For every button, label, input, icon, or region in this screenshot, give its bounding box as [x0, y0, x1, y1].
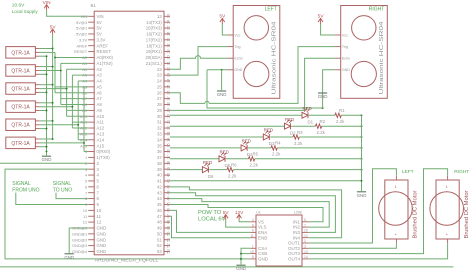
resistor R5	[249, 157, 255, 161]
svg-text:Vcc: Vcc	[234, 33, 240, 37]
wire OUT1 to left motor +	[309, 169, 397, 243]
svg-text:2.2k: 2.2k	[250, 163, 259, 168]
svg-text:RESET: RESET	[97, 49, 112, 54]
svg-text:22: 22	[166, 67, 170, 71]
svg-text:A10: A10	[80, 114, 88, 119]
svg-text:A9: A9	[97, 108, 103, 113]
svg-text:6: 6	[97, 184, 100, 189]
ultrasonic HC-SR04 RIGHT outline	[341, 6, 388, 99]
wire QTR4 VCC to 5V bus	[40, 102, 53, 104]
wire QTR6 VCC to 5V bus	[40, 138, 53, 140]
svg-text:41: 41	[166, 179, 170, 183]
svg-text:RIGHT: RIGHT	[369, 7, 385, 13]
svg-text:33: 33	[166, 132, 170, 136]
svg-text:Ultrasonic HC-SR04: Ultrasonic HC-SR04	[272, 21, 278, 94]
transducer circle bottom LEFT	[244, 61, 269, 86]
svg-text:7: 7	[85, 190, 88, 195]
5V bus wire (QTR VCC rail)	[52, 35, 54, 139]
GND bus wire (QTR GND rail)	[46, 56, 48, 155]
svg-text:35: 35	[166, 143, 170, 147]
svg-text:12: 12	[304, 234, 308, 238]
ground symbol GND (driver)	[236, 264, 245, 266]
ground symbol GND (left sonar)	[217, 90, 226, 92]
svg-text:35: 35	[157, 143, 162, 148]
svg-text:34: 34	[166, 138, 170, 142]
wire net to pin 2 (from left edge)	[0, 162, 88, 164]
svg-text:FROM UNO: FROM UNO	[12, 187, 39, 193]
svg-text:53: 53	[166, 249, 170, 253]
svg-text:A0: A0	[82, 55, 88, 60]
wire ground link to right sonar	[207, 70, 323, 108]
wire right sonar Echo	[170, 58, 335, 110]
svg-text:16(TX2): 16(TX2)	[146, 32, 162, 37]
wire arduino to ENA	[170, 210, 250, 232]
pin stubs QTR1	[35, 48, 39, 50]
svg-text:RED: RED	[203, 160, 212, 165]
svg-text:A3: A3	[97, 73, 103, 78]
IC B1 ARDUINO_MEGA_FQFULL outline	[94, 11, 164, 255]
driver left pin stubs	[250, 221, 256, 223]
svg-text:AREF: AREF	[97, 43, 109, 48]
sensor module U5 QTR-1A	[6, 119, 36, 131]
svg-text:28: 28	[166, 102, 170, 106]
svg-text:29: 29	[166, 108, 170, 112]
svg-text:5: 5	[97, 179, 100, 184]
svg-text:SIGNAL: SIGNAL	[12, 181, 31, 187]
svg-text:1: 1	[85, 155, 88, 160]
svg-text:12: 12	[83, 220, 88, 225]
wire 5V to VLS	[226, 220, 251, 227]
wire QTR4 GND to bus	[40, 110, 47, 112]
svg-text:A4: A4	[82, 79, 88, 84]
svg-text:12V: 12V	[235, 210, 244, 216]
wire 5V to left sonar Vcc	[222, 24, 227, 35]
svg-text:SIGNAL: SIGNAL	[53, 181, 72, 187]
svg-text:D2: D2	[290, 130, 296, 135]
svg-text:10: 10	[83, 208, 88, 213]
svg-text:A15: A15	[97, 143, 105, 148]
svg-text:51: 51	[166, 238, 170, 242]
svg-text:6: 6	[85, 184, 88, 189]
pin stubs LEFT	[228, 34, 234, 36]
supply VIN	[44, 5, 49, 9]
svg-text:1(TX0): 1(TX0)	[97, 155, 111, 160]
svg-text:RED: RED	[242, 139, 251, 144]
svg-text:A2: A2	[82, 67, 88, 72]
svg-text:5V: 5V	[97, 32, 102, 37]
svg-text:41: 41	[157, 179, 162, 184]
pin stubs QTR3	[35, 84, 39, 86]
svg-text:D1: D1	[308, 120, 314, 125]
svg-text:2.2k: 2.2k	[272, 152, 281, 157]
wire QTR1 branch A7	[55, 92, 88, 94]
svg-text:27: 27	[157, 96, 162, 101]
svg-text:52: 52	[157, 243, 162, 248]
wire resistor R1 to bus	[341, 114, 361, 116]
wire arduino to LED D3	[170, 136, 263, 138]
svg-text:VLS: VLS	[258, 225, 267, 230]
svg-text:36: 36	[166, 149, 170, 153]
svg-text:GND: GND	[42, 157, 52, 162]
svg-text:0(RX0): 0(RX0)	[97, 149, 111, 154]
svg-text:GND@1: GND@1	[72, 231, 88, 236]
wire arduino to ENB	[170, 216, 250, 237]
wire QTR5 GND to bus	[40, 128, 47, 130]
svg-text:A0(RX0): A0(RX0)	[97, 55, 114, 60]
svg-text:GND: GND	[97, 226, 107, 231]
svg-text:15: 15	[166, 26, 170, 30]
svg-text:10: 10	[97, 208, 102, 213]
svg-text:15(RX3): 15(RX3)	[146, 26, 163, 31]
svg-text:A12: A12	[97, 126, 105, 131]
svg-text:Brushed DC Motor: Brushed DC Motor	[413, 190, 419, 238]
wire QTR2 OUT staircase	[40, 70, 61, 72]
wire OUT3 to right motor +	[309, 169, 448, 254]
wire QTR6 OUT staircase	[40, 142, 84, 144]
svg-text:A14: A14	[80, 137, 88, 142]
svg-text:2: 2	[97, 161, 100, 166]
svg-text:A10: A10	[97, 114, 105, 119]
svg-text:A5: A5	[97, 84, 103, 89]
ground symbol GND (arduino)	[65, 253, 74, 255]
svg-text:37: 37	[166, 155, 170, 159]
wire CSA CSB GND to ground	[241, 248, 250, 264]
svg-text:OUT3: OUT3	[288, 251, 300, 256]
svg-text:GND@0: GND@0	[72, 226, 88, 231]
svg-text:40: 40	[166, 173, 170, 177]
wire QTR2 VCC to 5V bus	[40, 66, 53, 68]
svg-text:48: 48	[157, 220, 162, 225]
IC U1 L298 motor driver outline	[256, 215, 302, 266]
wire QTR2 GND to bus	[40, 73, 47, 75]
svg-text:LOCAL 6V: LOCAL 6V	[198, 216, 226, 222]
pin stubs RIGHT	[335, 34, 341, 36]
supply 5V right sonar	[318, 18, 323, 22]
svg-text:Vcc: Vcc	[342, 33, 348, 37]
svg-text:5V: 5V	[50, 24, 57, 30]
svg-text:OUT1: OUT1	[288, 241, 300, 246]
wire LED D1 to resistor R1	[309, 114, 335, 116]
wire resistor R4 to bus	[277, 147, 361, 149]
svg-text:A9: A9	[82, 108, 88, 113]
pin stubs QTR6	[35, 138, 39, 140]
svg-text:5V@1: 5V@1	[76, 26, 88, 31]
wire QTR1 VCC to 5V bus	[40, 48, 53, 50]
svg-text:A13: A13	[80, 132, 88, 137]
svg-text:5: 5	[304, 218, 306, 222]
wire QTR6 GND to bus	[40, 146, 47, 148]
svg-text:47: 47	[157, 214, 162, 219]
svg-text:18(TX1): 18(TX1)	[146, 43, 162, 48]
svg-text:2.2k: 2.2k	[294, 141, 303, 146]
svg-text:14: 14	[166, 20, 170, 24]
svg-text:B1: B1	[91, 3, 97, 8]
driver right pin stubs	[302, 221, 309, 223]
svg-text:A4: A4	[97, 79, 103, 84]
LED D6	[202, 167, 208, 173]
svg-text:Echo: Echo	[342, 57, 350, 61]
svg-text:A11: A11	[97, 120, 105, 125]
svg-text:25: 25	[166, 85, 170, 89]
svg-text:13: 13	[166, 14, 170, 18]
svg-text:34: 34	[157, 137, 162, 142]
svg-text:29: 29	[157, 108, 162, 113]
svg-text:LEFT: LEFT	[402, 169, 414, 175]
motor M LEFT outline	[385, 180, 408, 239]
svg-text:42: 42	[166, 185, 170, 189]
svg-text:Echo: Echo	[234, 57, 242, 61]
wire LED D2 to resistor R2	[292, 125, 316, 127]
wire LED D5 to resistor R5	[226, 158, 249, 160]
wire QTR3 VCC to 5V bus	[40, 84, 53, 86]
svg-text:13: 13	[304, 250, 308, 254]
svg-text:GND@4: GND@4	[72, 249, 88, 254]
LED D4	[241, 145, 247, 151]
motor RIGHT pin stubs	[447, 176, 449, 180]
svg-text:3: 3	[304, 245, 306, 249]
svg-text:TO UNO: TO UNO	[53, 187, 72, 193]
wire arduino to LED D1	[170, 114, 302, 116]
supply 12V driver	[237, 215, 242, 219]
svg-text:28: 28	[157, 102, 162, 107]
wire LED D6 to resistor R6	[209, 169, 227, 171]
svg-text:49: 49	[157, 226, 162, 231]
sensor module U3 QTR-1A	[6, 83, 36, 95]
svg-text:52: 52	[166, 243, 170, 247]
ground symbol GND (QTR rail)	[42, 155, 51, 157]
svg-text:POW TO: POW TO	[198, 210, 222, 216]
svg-text:Trig: Trig	[342, 45, 348, 49]
svg-text:13: 13	[157, 14, 162, 19]
svg-text:17(RX2): 17(RX2)	[146, 37, 163, 42]
wire QTR3 GND to bus	[40, 91, 47, 93]
svg-text:*: *	[395, 233, 397, 238]
svg-text:44: 44	[157, 196, 162, 201]
wire arduino to LED D5	[170, 158, 219, 160]
pin stubs QTR4	[35, 102, 39, 104]
svg-text:9: 9	[97, 202, 100, 207]
svg-text:VIN: VIN	[43, 0, 52, 6]
resistor R4	[271, 146, 277, 150]
svg-text:QTR-1A: QTR-1A	[11, 141, 30, 147]
svg-text:ENA: ENA	[258, 230, 267, 235]
svg-text:ARDUINO_MEGA_FQFULL: ARDUINO_MEGA_FQFULL	[95, 257, 159, 262]
svg-text:21(SCL): 21(SCL)	[146, 61, 163, 66]
svg-text:RED: RED	[285, 117, 294, 122]
wire QTR5 OUT staircase	[40, 124, 79, 126]
wire QTR3 OUT staircase	[40, 88, 67, 90]
svg-text:6: 6	[252, 229, 254, 233]
svg-text:A11: A11	[80, 120, 88, 125]
LED D2	[285, 123, 291, 129]
wire right sonar Trig	[170, 93, 205, 104]
arduino left pins	[88, 15, 94, 17]
svg-text:*: *	[446, 233, 448, 238]
svg-text:R1: R1	[339, 108, 345, 113]
svg-text:L298: L298	[294, 211, 302, 215]
svg-text:AREF: AREF	[77, 43, 88, 48]
wire QTR1 OUT staircase	[40, 51, 55, 53]
svg-text:24: 24	[157, 79, 162, 84]
svg-text:GND: GND	[318, 94, 328, 99]
wire resistor R3 to bus	[299, 136, 361, 138]
wire OUT4 to right motor -	[309, 243, 448, 259]
svg-text:LEFT: LEFT	[265, 7, 277, 13]
svg-text:46: 46	[166, 208, 170, 212]
wire arduino gnd tie to LED bus	[170, 180, 362, 182]
svg-text:47: 47	[166, 214, 170, 218]
svg-text:GND: GND	[97, 231, 107, 236]
svg-text:U1: U1	[256, 211, 261, 215]
svg-text:51: 51	[157, 237, 162, 242]
sensor module U6 QTR-1A	[6, 137, 36, 149]
svg-text:Ultrasonic HC-SR04: Ultrasonic HC-SR04	[379, 21, 385, 94]
svg-text:40: 40	[157, 173, 162, 178]
svg-text:11: 11	[83, 214, 88, 219]
svg-text:1: 1	[395, 185, 397, 189]
svg-text:1: 1	[252, 245, 254, 249]
svg-text:D6: D6	[208, 174, 214, 179]
svg-text:5V: 5V	[318, 14, 325, 20]
svg-text:A6: A6	[97, 90, 103, 95]
pin stubs QTR5	[35, 120, 39, 122]
svg-text:OUT2: OUT2	[288, 246, 300, 251]
wire resistor R5 to bus	[255, 158, 362, 160]
svg-text:GND: GND	[234, 68, 242, 72]
svg-text:A2: A2	[97, 67, 103, 72]
wire net pin 3 loop to driver ground	[5, 169, 241, 259]
svg-text:IN2: IN2	[293, 225, 301, 230]
svg-text:15: 15	[250, 250, 254, 254]
transducer circle bottom RIGHT	[351, 61, 376, 86]
wire resistor R6 to bus	[233, 169, 361, 171]
svg-text:19(RX1): 19(RX1)	[146, 49, 163, 54]
svg-text:30: 30	[166, 114, 170, 118]
svg-text:QTR-1A: QTR-1A	[11, 87, 30, 93]
sensor module U1 QTR-1A	[6, 47, 36, 59]
LED D1	[302, 112, 308, 118]
sensor module U4 QTR-1A	[6, 101, 36, 113]
svg-text:4: 4	[85, 173, 88, 178]
svg-text:48: 48	[166, 220, 170, 224]
svg-text:11: 11	[97, 214, 102, 219]
arduino right pins	[164, 15, 170, 17]
svg-text:R2: R2	[320, 119, 326, 124]
wire resistor R2 to bus	[322, 125, 362, 127]
svg-text:R5: R5	[253, 152, 259, 157]
wire bottom ground rail	[0, 266, 454, 268]
svg-text:R4: R4	[275, 141, 281, 146]
wire arduino to LED D6	[170, 169, 202, 171]
resistor R3	[293, 135, 299, 139]
svg-text:2.2k: 2.2k	[228, 173, 237, 178]
svg-text:53: 53	[157, 249, 162, 254]
wire arduino to LED D4	[170, 147, 241, 149]
svg-text:OUT4: OUT4	[288, 257, 300, 262]
svg-text:1: 1	[446, 185, 448, 189]
svg-text:GND: GND	[97, 243, 107, 248]
wire QTR5 branch A15	[78, 139, 88, 141]
motor LEFT rotor circle	[379, 192, 413, 226]
svg-text:CSA: CSA	[258, 246, 267, 251]
svg-text:Trig: Trig	[234, 45, 240, 49]
svg-text:19: 19	[166, 49, 170, 53]
wire LED D3 to resistor R3	[270, 136, 293, 138]
svg-text:14(TX3): 14(TX3)	[146, 20, 162, 25]
svg-text:IN3: IN3	[293, 230, 301, 235]
svg-text:A3: A3	[82, 73, 88, 78]
sensor module U2 QTR-1A	[6, 65, 36, 77]
svg-text:49: 49	[166, 226, 170, 230]
resistor R2	[316, 124, 322, 128]
pin stubs QTR2	[35, 66, 39, 68]
svg-text:37: 37	[157, 155, 162, 160]
svg-text:2: 2	[304, 239, 306, 243]
svg-text:8: 8	[97, 196, 100, 201]
wire QTR6 branch A16	[84, 145, 88, 147]
svg-text:32: 32	[157, 126, 162, 131]
motor M RIGHT outline	[436, 180, 459, 239]
wire arduino to IN3	[170, 193, 335, 233]
LED D5	[219, 156, 225, 162]
wire QTR1 branch A6	[55, 86, 88, 88]
svg-text:GND: GND	[342, 68, 350, 72]
svg-text:GND@2: GND@2	[72, 237, 88, 242]
wire left sonar Echo	[170, 58, 196, 69]
svg-text:QTR-1A: QTR-1A	[11, 123, 30, 129]
svg-text:14: 14	[304, 255, 308, 259]
svg-text:QTR-1A: QTR-1A	[11, 105, 30, 111]
svg-text:RED: RED	[264, 128, 273, 133]
wire QTR2 branch A8	[61, 98, 88, 100]
svg-text:46: 46	[157, 208, 162, 213]
svg-text:25: 25	[157, 84, 162, 89]
motor LEFT pin stubs	[395, 176, 397, 180]
LED D3	[263, 134, 269, 140]
svg-text:CSB: CSB	[258, 251, 267, 256]
svg-text:5V: 5V	[219, 14, 226, 20]
svg-text:7: 7	[97, 190, 100, 195]
svg-text:A12: A12	[80, 126, 88, 131]
resistor R1	[335, 113, 341, 117]
svg-text:36: 36	[157, 149, 162, 154]
wire QTR3 branch A10	[67, 109, 89, 111]
svg-text:20: 20	[166, 55, 170, 59]
svg-text:21: 21	[166, 61, 170, 65]
wire right sonar GND to ground	[323, 70, 335, 108]
svg-text:5V@2: 5V@2	[76, 32, 88, 37]
svg-text:12: 12	[97, 220, 102, 225]
svg-text:A8: A8	[82, 102, 88, 107]
svg-text:VIN: VIN	[97, 14, 104, 19]
svg-text:A15: A15	[80, 143, 88, 148]
svg-text:42: 42	[157, 184, 162, 189]
svg-text:30: 30	[157, 114, 162, 119]
svg-text:QTR-1A: QTR-1A	[11, 50, 30, 56]
svg-text:44: 44	[166, 196, 170, 200]
svg-text:5V: 5V	[223, 210, 230, 216]
svg-text:A8: A8	[97, 102, 103, 107]
svg-text:2.2k: 2.2k	[317, 130, 326, 135]
svg-text:IN4: IN4	[293, 235, 301, 240]
svg-text:GND: GND	[357, 193, 367, 198]
svg-text:QTR-1A: QTR-1A	[11, 68, 30, 74]
svg-text:2.2k: 2.2k	[336, 119, 345, 124]
svg-text:10.6V: 10.6V	[12, 2, 25, 8]
resistor R6	[227, 167, 233, 171]
wire QTR5 VCC to 5V bus	[40, 120, 53, 122]
supply 5V qtr bus	[50, 29, 55, 33]
